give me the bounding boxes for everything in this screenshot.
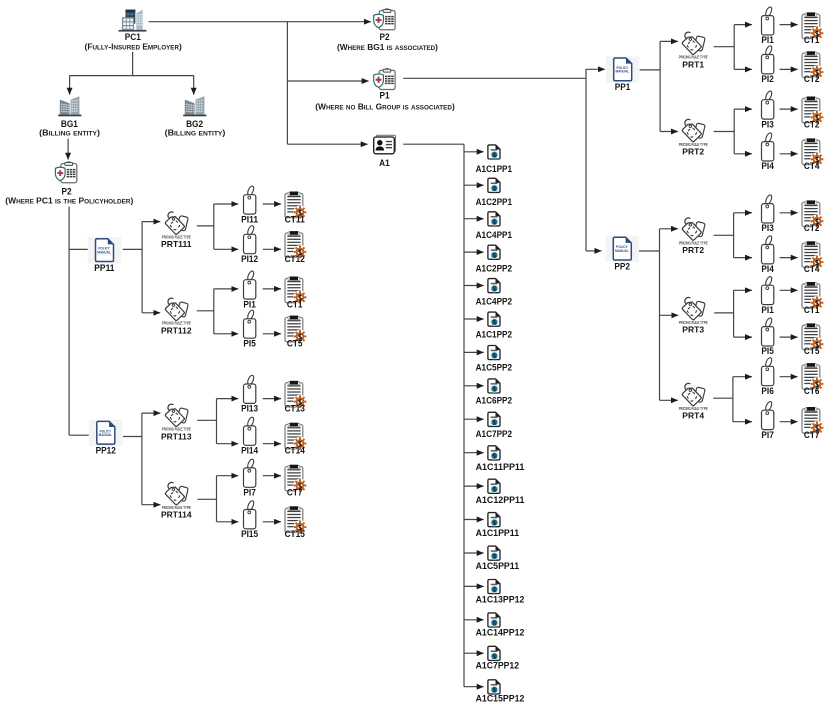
svg-text:CT7: CT7	[804, 430, 820, 441]
wire to A1C item y185	[464, 184, 484, 186]
svg-text:(Billing entity): (Billing entity)	[39, 128, 100, 137]
node CT5 charge type bl354.2	[802, 323, 824, 357]
node PI3 price tag bl231.2	[761, 194, 773, 234]
svg-text:CT2: CT2	[804, 74, 820, 85]
wire PI to CT right row y109.1	[780, 108, 798, 110]
node A1C11PP11 document y453	[476, 446, 525, 473]
svg-text:CT12: CT12	[285, 254, 305, 265]
wire to A1C item y586	[464, 585, 484, 587]
wire to PI right row y257.6	[734, 257, 752, 259]
svg-text:CT2: CT2	[804, 223, 820, 234]
node CT2 charge type bl127.3	[802, 97, 824, 131]
svg-text:CT5: CT5	[287, 338, 303, 349]
node PRT3 pricing rule type	[679, 297, 708, 334]
node CT7 charge type bl495.5	[285, 465, 307, 499]
svg-text:CT4: CT4	[804, 161, 820, 172]
svg-text:PP11: PP11	[94, 263, 115, 274]
wire to A1C item y620	[464, 619, 484, 621]
node A1C7PP2 document y419	[476, 412, 512, 439]
svg-text:A1C1PP2: A1C1PP2	[476, 330, 512, 341]
wire PRT2b out	[714, 213, 734, 258]
node A1 contact card	[374, 135, 396, 169]
svg-text:CT13: CT13	[285, 404, 305, 415]
wire to A1C item y419	[464, 418, 484, 420]
wire to PP11	[69, 248, 89, 250]
svg-text:PRT113: PRT113	[161, 431, 192, 441]
node CT5 charge type bl346.4	[285, 316, 307, 350]
wire trunk to A1	[287, 143, 367, 145]
node PI7 price tag bl437.8	[761, 401, 773, 441]
wire to PRT2b	[660, 228, 678, 230]
wire P1 out	[403, 69, 586, 251]
wire PRT112 out	[197, 289, 214, 334]
svg-text:PRT114: PRT114	[161, 510, 192, 520]
wire PRT2a out	[714, 109, 735, 154]
node A1C12PP11 document y486	[476, 479, 525, 506]
wire P2 left trunk	[68, 207, 70, 436]
node CT2 charge type bl82.1	[802, 51, 824, 85]
wire PI to CT row y249.3	[263, 248, 281, 250]
node PI4 price tag bl169.2	[761, 132, 774, 172]
svg-text:A1C13PP12: A1C13PP12	[476, 594, 525, 605]
node PI7 price tag bl495.5	[243, 458, 255, 498]
wire to PI right row y109.1	[734, 108, 752, 110]
wire PI to CT right row y153.8	[780, 153, 798, 155]
node PI2 price tag bl82.1	[761, 45, 773, 85]
wire PC1 down	[70, 52, 194, 76]
wire to A1C item y453	[464, 452, 484, 454]
node A1C15PP12 document y687	[476, 680, 525, 705]
wire to PRT111	[142, 221, 160, 223]
wire trunk to P1	[287, 80, 368, 82]
wire PI to CT right row y257.6	[780, 257, 798, 259]
node PI5 price tag bl354.2	[761, 317, 774, 357]
wire to PI row y333.8	[214, 333, 238, 335]
wire to PI right row y153.8	[734, 153, 752, 155]
svg-text:PC1: PC1	[125, 32, 142, 43]
node CT13 charge type bl411.6	[285, 381, 307, 415]
svg-text:(Where no Bill Group is associ: (Where no Bill Group is associated)	[315, 102, 455, 111]
node CT1 charge type bl43.2	[802, 12, 824, 46]
node PRT1 pricing rule type	[679, 32, 708, 69]
node PI1 price tag bl43.2	[761, 6, 774, 46]
node CT4 charge type bl272.1	[802, 241, 824, 275]
svg-text:PP12: PP12	[96, 446, 116, 457]
node A1C4PP2 document y286	[476, 279, 512, 308]
node PP1 policy manual	[606, 56, 640, 93]
wire PI to CT right row y290.3	[780, 289, 798, 291]
svg-text:CT7: CT7	[287, 488, 303, 499]
node PRT111 pricing rule type	[161, 212, 192, 249]
svg-text:PI3: PI3	[761, 119, 773, 130]
svg-text:A1C5PP2: A1C5PP2	[476, 363, 512, 374]
wire PC1-P2 trunk drop	[286, 22, 288, 145]
wire PP12 out	[123, 413, 142, 505]
wire to PI row y443.7	[217, 443, 239, 445]
svg-text:A1C4PP2: A1C4PP2	[476, 296, 512, 307]
node PRT112 pricing rule type	[161, 298, 192, 335]
svg-text:PP1: PP1	[615, 82, 631, 93]
wire to PRT2a	[660, 131, 678, 133]
node PI3 price tag bl127.3	[761, 90, 773, 130]
node A1C1PP2 document y319	[476, 312, 512, 340]
wire PRT113 out	[197, 399, 216, 444]
wire to A1C item y319	[464, 318, 484, 320]
svg-text:PI2: PI2	[761, 74, 773, 85]
svg-text:CT1: CT1	[804, 35, 820, 46]
node PI4 price tag bl272.1	[761, 235, 774, 275]
wire to PRT3	[660, 314, 679, 316]
node BG2 building	[165, 96, 226, 137]
svg-text:A1C11PP11: A1C11PP11	[476, 462, 525, 473]
svg-text:A1C4PP1: A1C4PP1	[476, 230, 513, 241]
wire to A1C item y286	[464, 285, 484, 287]
svg-text:PI3: PI3	[761, 223, 773, 234]
svg-text:A1C2PP2: A1C2PP2	[476, 263, 512, 274]
svg-text:PRT2: PRT2	[682, 245, 704, 255]
wire PP2 out	[639, 229, 660, 400]
svg-text:CT15: CT15	[285, 529, 306, 540]
node PI15 price tag bl537.1	[241, 500, 259, 540]
wire to PI row y249.3	[214, 248, 238, 250]
node CT1 charge type bl307.3	[285, 277, 307, 311]
wire to A1C item y653	[464, 652, 484, 654]
wire to PP12	[69, 434, 89, 436]
svg-text:PRT1: PRT1	[682, 59, 704, 69]
node PP2 policy manual	[606, 236, 640, 273]
svg-text:P1: P1	[380, 91, 391, 102]
wire PRT1 out	[714, 25, 735, 70]
wire BG1 to P2 left	[67, 139, 69, 160]
wire PRT4 out	[713, 377, 733, 422]
node A1C13PP12 document y586	[476, 580, 525, 606]
svg-text:PI13: PI13	[241, 404, 258, 415]
svg-text:CT5: CT5	[804, 346, 820, 357]
svg-text:A1C14PP12: A1C14PP12	[476, 627, 525, 638]
wire PI to CT row y333.8	[263, 333, 281, 335]
wire to PRT1	[660, 40, 678, 42]
wire PI to CT row y521.8	[263, 521, 281, 523]
node PI14 price tag bl453.5	[241, 416, 259, 456]
node PC1 building	[85, 10, 183, 52]
wire to A1C item y152	[464, 151, 484, 153]
node CT14 charge type bl453.5	[285, 423, 307, 457]
svg-text:PI7: PI7	[243, 488, 255, 499]
node P2 policy mid	[337, 9, 438, 52]
svg-text:CT11: CT11	[285, 214, 306, 225]
wire PC1 to P2	[149, 21, 371, 23]
svg-text:PI11: PI11	[241, 214, 259, 225]
wire to PRT4	[660, 399, 678, 401]
wire to PP2	[586, 250, 601, 252]
svg-text:A1C6PP2: A1C6PP2	[476, 396, 512, 407]
node A1C14PP12 document y620	[476, 613, 525, 639]
wire to A1C item y219	[464, 218, 484, 220]
svg-text:PRT3: PRT3	[682, 325, 704, 335]
wire PI to CT row y398.6	[263, 398, 281, 400]
node CT11 charge type bl222.3	[285, 192, 307, 226]
wire PRT111 out	[197, 204, 214, 249]
svg-text:PI4: PI4	[761, 161, 774, 172]
node CT1 charge type bl312.8	[802, 282, 824, 316]
node CT7 charge type bl437.8	[802, 407, 824, 441]
node PRT4 pricing rule type	[679, 383, 708, 420]
wire PP1 out	[640, 41, 660, 131]
svg-text:PRT2: PRT2	[682, 147, 704, 157]
svg-text:A1C7PP2: A1C7PP2	[476, 429, 512, 440]
wire A1 out	[403, 144, 464, 687]
wire PRT114 out	[197, 476, 216, 522]
wire PI to CT right row y69.4	[780, 68, 798, 70]
svg-text:PI15: PI15	[241, 529, 259, 540]
node PI5 price tag bl346.4	[243, 309, 256, 349]
svg-text:(Billing entity): (Billing entity)	[165, 128, 226, 137]
node PI11 price tag bl222.3	[241, 185, 259, 225]
node PI1 price tag bl307.3	[243, 270, 256, 310]
wire to A1C item y352	[464, 351, 484, 353]
wire PI to CT right row y212.8	[780, 212, 798, 214]
node PRT2b pricing rule type	[679, 218, 708, 255]
node A1C5PP2 document y352	[476, 346, 512, 374]
node CT12 charge type bl261.9	[285, 231, 307, 265]
node PRT114 pricing rule type	[161, 482, 192, 519]
node PRT2a pricing rule type	[679, 119, 708, 156]
wire PI to CT row y204.0	[263, 203, 281, 205]
wire PI to CT right row y24.6	[780, 24, 798, 26]
svg-text:PI1: PI1	[243, 299, 256, 310]
svg-text:CT1: CT1	[287, 299, 303, 310]
svg-text:A1: A1	[379, 158, 390, 169]
wire to PI right row y290.3	[734, 289, 752, 291]
node PI1 price tag bl312.8	[761, 276, 774, 316]
svg-text:CT6: CT6	[804, 386, 820, 397]
svg-text:(Fully-Insured Employer): (Fully-Insured Employer)	[85, 42, 183, 51]
node P2 policy left	[5, 162, 133, 206]
svg-text:A1C1PP1: A1C1PP1	[476, 164, 513, 175]
node A1C7PP12 document y653	[476, 646, 519, 671]
wire to PRT114	[142, 504, 161, 506]
svg-text:A1C7PP12: A1C7PP12	[476, 661, 519, 672]
wire to PI right row y212.8	[734, 212, 752, 214]
wire to A1C item y553	[464, 552, 484, 554]
wire PP11 out	[123, 222, 142, 313]
wire to PRT113	[142, 412, 161, 414]
svg-text:A1C15PP12: A1C15PP12	[476, 694, 525, 705]
node A1C5PP11 document y553	[476, 546, 520, 572]
svg-text:CT1: CT1	[804, 305, 820, 316]
wire PI to CT right row y376.7	[780, 376, 798, 378]
node PI12 price tag bl261.9	[241, 225, 258, 265]
node PRT113 pricing rule type	[161, 404, 192, 441]
wire to PI right row y24.6	[734, 24, 752, 26]
svg-text:PI1: PI1	[761, 35, 774, 46]
wire to PI row y475.7	[217, 475, 239, 477]
wire to A1C item y252	[464, 251, 484, 253]
svg-text:A1C5PP11: A1C5PP11	[476, 561, 520, 572]
wire PI to CT row y475.7	[263, 475, 281, 477]
svg-text:PRT111: PRT111	[161, 239, 192, 249]
svg-text:(Where BG1 is associated): (Where BG1 is associated)	[337, 43, 438, 52]
wire to PI row y204.0	[214, 203, 238, 205]
svg-text:CT4: CT4	[804, 264, 820, 275]
node PI13 price tag bl411.6	[241, 374, 258, 414]
node CT2 charge type bl231.2	[802, 200, 824, 234]
wire to PI right row y69.4	[734, 68, 752, 70]
wire to PI right row y337.1	[734, 336, 752, 338]
svg-text:CT14: CT14	[285, 446, 306, 457]
wire to PP1	[586, 68, 605, 70]
svg-text:PI4: PI4	[761, 264, 774, 275]
node PI6 price tag bl393.9	[761, 357, 773, 397]
svg-text:PI14: PI14	[241, 446, 259, 457]
svg-text:PP2: PP2	[614, 261, 630, 272]
svg-text:PI1: PI1	[761, 305, 774, 316]
node A1C6PP2 document y386	[476, 379, 512, 407]
wire to A1C item y386	[464, 385, 484, 387]
node A1C4PP1 document y219	[476, 212, 513, 241]
wire to PI row y521.8	[217, 521, 239, 523]
svg-text:(Where PC1 is the Policyholde: (Where PC1 is the Policyholder)	[5, 196, 133, 205]
wire to A1C item y486	[464, 485, 484, 487]
node PP11 policy manual	[88, 237, 122, 274]
svg-text:P2: P2	[380, 32, 390, 43]
svg-text:A1C2PP1: A1C2PP1	[476, 197, 513, 208]
svg-text:A1C1PP11: A1C1PP11	[476, 528, 520, 539]
wire PRT3 out	[714, 290, 733, 337]
wire to PI row y288.9	[214, 288, 238, 290]
wire to A1C item y520	[464, 519, 484, 521]
node BG1 building	[39, 96, 100, 137]
node CT6 charge type bl393.9	[802, 363, 824, 397]
svg-text:CT2: CT2	[804, 119, 820, 130]
svg-text:PI5: PI5	[243, 338, 256, 349]
wire to PI right row y421.7	[733, 421, 752, 423]
node CT15 charge type bl537.1	[285, 506, 307, 540]
wire to BG1	[69, 76, 71, 95]
wire to PI right row y376.7	[733, 376, 752, 378]
wire to PI row y398.6	[217, 398, 239, 400]
svg-text:PI6: PI6	[761, 386, 773, 397]
svg-text:PRT4: PRT4	[682, 411, 704, 421]
svg-text:PI5: PI5	[761, 346, 774, 357]
node P1 policy mid	[315, 69, 455, 112]
svg-text:PRT112: PRT112	[161, 325, 192, 335]
wire PI to CT right row y421.7	[780, 421, 798, 423]
svg-text:A1C12PP11: A1C12PP11	[476, 495, 525, 506]
wire PI to CT row y288.9	[263, 288, 281, 290]
wire to A1C item y687	[464, 686, 484, 688]
wire to PRT112	[142, 312, 160, 314]
wire PI to CT row y443.7	[263, 443, 281, 445]
node A1C2PP1 document y185	[476, 178, 513, 208]
wire to BG2	[193, 76, 195, 95]
node A1C1PP1 document y152	[476, 145, 513, 175]
wire PI to CT right row y337.1	[780, 336, 798, 338]
node PP12 policy manual	[89, 420, 123, 457]
node CT4 charge type bl169.2	[802, 138, 824, 172]
svg-text:PI7: PI7	[761, 430, 773, 441]
node A1C1PP11 document y520	[476, 513, 520, 540]
node A1C2PP2 document y252	[476, 245, 512, 274]
svg-text:PI12: PI12	[241, 254, 258, 265]
